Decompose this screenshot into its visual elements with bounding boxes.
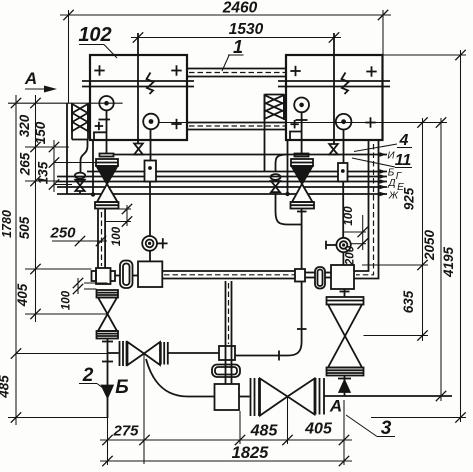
corner mark + left vessel BR bbox=[171, 119, 181, 129]
main pipe top line bbox=[162, 270, 295, 272]
dim text 4195 bbox=[441, 246, 456, 278]
svg-text:150: 150 bbox=[33, 121, 48, 144]
break zigzag right vessel bbox=[342, 73, 349, 95]
pipe right valve outlet bbox=[301, 209, 303, 270]
datum line y269 bbox=[25, 268, 92, 270]
gauge circle left vessel outer bbox=[99, 96, 113, 110]
svg-text:505: 505 bbox=[17, 216, 32, 239]
control valve left body lower bbox=[97, 184, 118, 202]
header И bbox=[114, 152, 388, 156]
tube bundle line right vessel upper bbox=[278, 80, 390, 82]
datum line y55 right bbox=[383, 54, 467, 56]
ext line x107.5 bottom bbox=[107, 418, 109, 465]
step bracket right bbox=[290, 132, 302, 141]
label И bbox=[387, 151, 395, 162]
dim chain x460.5 bbox=[455, 50, 465, 423]
dim chain x422.5 bbox=[417, 117, 427, 341]
sampler vessel block bbox=[215, 384, 240, 410]
steam pipe upper run top line bbox=[187, 68, 286, 70]
svg-text:405: 405 bbox=[15, 283, 30, 307]
stem from gauge down to valve right bbox=[301, 112, 303, 154]
cap bar upper left stem bbox=[102, 341, 113, 343]
dimension line 2460 bbox=[60, 10, 391, 20]
pressure gauge right (double circle) bbox=[336, 238, 350, 252]
datum line y103 bbox=[8, 102, 123, 104]
pipe gauge to pump right bbox=[342, 252, 344, 265]
svg-text:2050: 2050 bbox=[422, 229, 437, 261]
shutoff valve left inlet pipe bbox=[108, 352, 119, 354]
svg-text:100: 100 bbox=[111, 226, 123, 246]
pump block left bbox=[138, 261, 162, 287]
pipe ladder drop with jog bbox=[81, 140, 88, 173]
control valve right bonnet bar bbox=[295, 154, 309, 157]
dim 250 line bbox=[52, 236, 107, 246]
orifice holder right bbox=[338, 163, 348, 182]
datum line y265 right bbox=[362, 264, 428, 266]
label 11 with leader bbox=[352, 152, 412, 169]
gauge circle 2 right vessel bbox=[336, 114, 352, 130]
pipe vessel-edge drop right bbox=[285, 140, 289, 196]
bypass pipe right (from header И down) bbox=[276, 155, 287, 173]
svg-text:135: 135 bbox=[36, 161, 51, 184]
instrument line y122.5 long bbox=[159, 122, 447, 124]
sampler pipe wall B bbox=[231, 281, 233, 384]
pipe valve outlet left dashed centerline bbox=[101, 212, 103, 266]
svg-text:Ж: Ж bbox=[388, 191, 399, 202]
dimension line 1530 bbox=[131, 32, 341, 42]
ext line x240 bottom bbox=[239, 411, 241, 444]
stem from gauge2 down right bbox=[343, 130, 345, 164]
reducer valve left outlet flange bbox=[97, 331, 119, 339]
manifold right dashed centerline bbox=[356, 144, 374, 275]
valve with handwheel left (ellipse+bowtie) bbox=[75, 173, 85, 194]
svg-text:2: 2 bbox=[82, 365, 94, 386]
dim text 150 bbox=[33, 121, 48, 144]
dimension 1530 extension left / pipe drop through left vessel bbox=[137, 33, 139, 143]
control valve left bonnet flange bbox=[96, 159, 118, 166]
label 102 with leader bbox=[78, 24, 117, 58]
big valve flange L bbox=[251, 378, 260, 416]
sampler pipe wall A bbox=[225, 281, 227, 384]
pipe from arc into sampler bbox=[188, 396, 215, 398]
corner mark + right vessel TL bbox=[290, 66, 300, 76]
dimension 2460 extension line right bbox=[382, 10, 384, 55]
condensate pipe lower run dashed centerline bbox=[189, 125, 286, 127]
label 3 with leader bbox=[346, 415, 395, 439]
svg-text:2460: 2460 bbox=[222, 0, 258, 17]
dim chain x54 bbox=[49, 140, 59, 192]
vessel (right heater body) bbox=[286, 55, 383, 140]
dim chain x35.5 bbox=[30, 95, 40, 322]
datum line y335.5 right bbox=[364, 335, 429, 337]
vessel 102 (left heater body) bbox=[90, 55, 187, 140]
label Б outlet bbox=[115, 377, 128, 398]
control valve left outlet flange bbox=[95, 202, 119, 209]
outlet arrow Б bbox=[102, 386, 113, 398]
corner mark + right vessel TR bbox=[366, 66, 376, 76]
svg-text:250: 250 bbox=[49, 225, 76, 242]
label 4 with leader bbox=[354, 132, 412, 152]
pipe shutoff valve to sampler bbox=[168, 352, 219, 354]
gauge tee right bbox=[325, 241, 336, 250]
dim text 1780 bbox=[0, 210, 14, 238]
sampler pipe dashed centerline bbox=[228, 283, 230, 344]
dim text 320 bbox=[17, 114, 32, 137]
sampler capsule bbox=[212, 365, 240, 378]
pipe orifice to gauge right bbox=[342, 182, 344, 238]
dim text 275 bbox=[112, 423, 139, 440]
orifice holder left bbox=[145, 161, 157, 182]
stem below reducer right bbox=[338, 376, 351, 397]
dim text 485 left bbox=[0, 375, 12, 399]
svg-text:1825: 1825 bbox=[232, 444, 270, 462]
dimension 2460 extension line left bbox=[68, 10, 70, 103]
dim chain x16 bbox=[11, 95, 21, 425]
svg-text:1780: 1780 bbox=[0, 210, 14, 238]
connecting stubs left bbox=[115, 275, 138, 277]
label Ж header bbox=[388, 191, 399, 202]
pipe big valve to A riser bbox=[325, 395, 345, 397]
dim text 405 bottom bbox=[304, 421, 333, 438]
pipe pump to reducer right bbox=[340, 289, 350, 297]
control valve left body upper (closed) bbox=[97, 166, 118, 184]
pressure gauge left (double circle) bbox=[142, 236, 157, 251]
datum line y162 bbox=[54, 162, 96, 164]
control valve left bonnet bar bbox=[100, 154, 114, 157]
dim line y461 bbox=[100, 456, 352, 466]
datum line y417.5 left bbox=[8, 417, 108, 419]
small gate valve below right vessel bbox=[329, 144, 338, 155]
dim 100 reducer ticks bbox=[73, 278, 108, 294]
inlet arrow A bbox=[339, 381, 349, 393]
datum line y353.5 bbox=[16, 353, 108, 355]
dimension text 2460 bbox=[222, 0, 258, 17]
shutoff valve left flange R bbox=[161, 342, 168, 365]
control valve right body lower bbox=[292, 184, 313, 202]
stem tee right valve bbox=[297, 211, 307, 213]
reducer valve right inlet flange bbox=[327, 297, 364, 305]
dim text 100 reducer bbox=[61, 290, 73, 310]
reducer valve left inlet flange bbox=[97, 290, 119, 298]
main pipe dashed centerline bbox=[164, 274, 295, 276]
bypass pipe right lower bbox=[276, 192, 302, 224]
cross fitting right bbox=[295, 269, 305, 282]
dim text 250 bbox=[49, 225, 76, 242]
control valve right outlet flange bbox=[291, 202, 315, 209]
dim text 405 left bbox=[15, 283, 30, 307]
dim text 200 right bbox=[345, 245, 357, 266]
manifold right wall B bbox=[354, 141, 379, 279]
datum line y184.5 bbox=[54, 184, 72, 186]
label Б header bbox=[388, 168, 395, 179]
pipe right valve drop to sampler header bbox=[235, 282, 302, 356]
svg-text:А: А bbox=[329, 397, 342, 416]
big valve flange R bbox=[316, 378, 325, 415]
svg-text:925: 925 bbox=[402, 187, 417, 210]
joint tick on header bbox=[278, 351, 280, 361]
datum line y314 bbox=[25, 313, 108, 315]
ext line x287.5 bottom bbox=[287, 397, 289, 444]
svg-text:485: 485 bbox=[250, 423, 279, 440]
header Д bbox=[57, 179, 387, 183]
pipe gauge to pump left bbox=[149, 251, 151, 262]
header Г bbox=[57, 174, 387, 178]
valve with handwheel right bypass bbox=[271, 174, 281, 192]
gauge tee left bbox=[157, 238, 168, 248]
pipe valve outlet left wall A bbox=[97, 209, 99, 269]
big valve body bbox=[260, 379, 315, 416]
dim text 1825 bbox=[232, 444, 270, 462]
dim text 635 bbox=[401, 290, 416, 313]
dim text 505 bbox=[17, 216, 32, 239]
corner mark + left vessel TL bbox=[94, 65, 104, 75]
dim ticks 100/200 right bbox=[344, 215, 368, 250]
svg-text:405: 405 bbox=[304, 421, 333, 438]
svg-text:265: 265 bbox=[18, 152, 33, 176]
svg-text:4: 4 bbox=[399, 132, 409, 149]
header Ж bbox=[57, 192, 387, 196]
datum line y181 bbox=[25, 180, 57, 182]
header Б bbox=[87, 169, 387, 173]
svg-text:102: 102 bbox=[78, 24, 111, 46]
datum line y147 bbox=[25, 146, 69, 148]
shutoff valve left body bbox=[128, 342, 161, 365]
label Д header bbox=[387, 178, 395, 189]
stem from gauge2 down left bbox=[150, 129, 152, 160]
dim text 485 bottom bbox=[250, 423, 279, 440]
dim text 100 left bbox=[111, 226, 123, 246]
pipe sampler to big valve bbox=[239, 396, 250, 398]
ext line x144 bottom bbox=[143, 354, 145, 464]
ext line x344 bottom bbox=[343, 400, 345, 465]
corner mark + right vessel BL bbox=[290, 120, 298, 128]
capsule sight glass left bbox=[120, 261, 133, 289]
stem tick bar left bbox=[99, 119, 111, 121]
pipe A outlet horizontal bbox=[344, 395, 452, 397]
break zigzag left vessel bbox=[147, 73, 154, 95]
reducer valve right body bbox=[328, 305, 362, 368]
reducer valve right outlet flange bbox=[327, 368, 364, 376]
svg-text:3: 3 bbox=[381, 418, 392, 439]
pump block right bbox=[331, 265, 354, 289]
corner mark + right vessel BR bbox=[365, 117, 375, 127]
svg-text:Д: Д bbox=[387, 178, 395, 189]
dim text 925 bbox=[402, 187, 417, 210]
svg-text:100: 100 bbox=[61, 290, 73, 310]
dim 100 left ticks bbox=[105, 204, 132, 227]
control valve right bonnet flange bbox=[291, 159, 313, 166]
tube bundle line left vessel lower bbox=[82, 86, 194, 88]
svg-text:275: 275 bbox=[112, 423, 139, 440]
svg-text:485: 485 bbox=[0, 375, 12, 399]
dim line y440 bbox=[100, 435, 352, 445]
dim chain x441 bbox=[436, 117, 446, 401]
svg-text:11: 11 bbox=[395, 152, 412, 169]
shutoff valve left flange L bbox=[120, 341, 127, 366]
dim text 135 bbox=[36, 161, 51, 184]
sampler collar bbox=[219, 346, 235, 360]
corner mark + left vessel BL bbox=[95, 122, 103, 130]
svg-text:4195: 4195 bbox=[441, 246, 456, 278]
dimension text 1530 bbox=[229, 21, 264, 38]
svg-text:635: 635 bbox=[401, 290, 416, 313]
steam pipe upper run dashed centerline bbox=[189, 72, 286, 74]
svg-text:200: 200 bbox=[345, 245, 357, 266]
datum line y417.5 right bbox=[371, 417, 466, 419]
dim text 2050 bbox=[422, 229, 437, 261]
label Е header bbox=[397, 182, 404, 193]
arc pipe from shutoff valve bbox=[146, 359, 188, 397]
section label A with arrow bbox=[24, 69, 57, 93]
svg-text:Б: Б bbox=[388, 168, 395, 179]
condensate pipe lower run top line bbox=[187, 122, 286, 124]
step bracket left bbox=[94, 132, 107, 140]
steam pipe upper run bottom line bbox=[187, 76, 286, 78]
joint bar on right drop bbox=[297, 328, 307, 330]
header Е bbox=[57, 185, 387, 189]
pipe valve outlet left wall B bbox=[104, 209, 106, 269]
svg-text:1530: 1530 bbox=[229, 21, 264, 38]
pipe right ladder left rail down to header B bbox=[264, 120, 266, 172]
gauge circle 2 left vessel bbox=[143, 114, 159, 130]
stem tick bar right bbox=[296, 119, 308, 121]
gate valve ladder left (3 valves) bbox=[72, 104, 88, 140]
gauge circle right vessel outer bbox=[294, 98, 309, 113]
label 1 with leader bbox=[222, 37, 244, 71]
stem from gauge down to valve left bbox=[106, 110, 108, 154]
pipe below reducer left bbox=[107, 339, 109, 419]
cap bar lower left stem bbox=[102, 361, 113, 363]
dim text 100 right bbox=[343, 206, 355, 226]
svg-text:100: 100 bbox=[343, 206, 355, 226]
label A outlet bbox=[329, 397, 342, 416]
svg-text:1: 1 bbox=[233, 37, 243, 57]
label 2 with leader bbox=[79, 365, 106, 390]
svg-text:А: А bbox=[24, 69, 37, 88]
svg-text:Г: Г bbox=[396, 171, 403, 182]
tube bundle line left vessel upper bbox=[82, 80, 194, 82]
dimension 1530 extension right / pipe drop through right vessel bbox=[333, 33, 335, 144]
dim text 265 bbox=[18, 152, 33, 176]
control valve right body upper (closed) bbox=[292, 166, 313, 184]
connecting stubs right bbox=[305, 273, 331, 278]
capsule sight glass right bbox=[315, 267, 325, 289]
pipe orifice to gauge left bbox=[149, 182, 151, 237]
pipe vessel-edge drop left bbox=[91, 140, 95, 197]
svg-text:320: 320 bbox=[17, 114, 32, 137]
svg-text:Б: Б bbox=[115, 377, 128, 398]
label Г header bbox=[396, 171, 403, 182]
reducer valve left body bbox=[98, 298, 117, 332]
tube bundle line right vessel lower bbox=[278, 86, 390, 88]
main pipe bottom line bbox=[162, 278, 295, 280]
pipe long rail left bbox=[66, 104, 68, 195]
flanged fitting left bbox=[92, 268, 116, 284]
small gate valve below left vessel bbox=[134, 144, 143, 155]
condensate pipe lower run bottom line bbox=[187, 129, 286, 131]
manifold right wall A bbox=[354, 141, 369, 271]
corner mark + left vessel TR bbox=[171, 65, 181, 75]
gate valve ladder right (3 valves) bbox=[265, 95, 285, 121]
